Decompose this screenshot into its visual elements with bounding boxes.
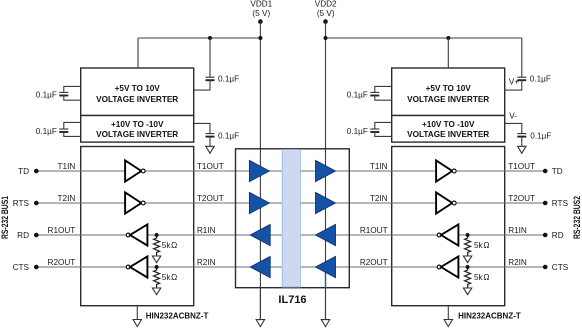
buffer T2 (left chip) <box>125 192 145 213</box>
svg-text:HIN232ACBNZ-T: HIN232ACBNZ-T <box>458 311 521 320</box>
capacitor C1 0.1uF (left outer top) <box>36 86 81 100</box>
voltage inverter box U2a +5V TO 10V <box>81 68 194 116</box>
ground under U3 <box>444 306 452 327</box>
svg-text:(5 V): (5 V) <box>317 9 335 18</box>
svg-text:R1IN: R1IN <box>508 226 527 235</box>
isolator U1 IL716 box <box>236 149 350 288</box>
svg-text:+5V TO 10V: +5V TO 10V <box>426 84 472 93</box>
svg-text:V+: V+ <box>509 77 519 86</box>
wire VDD2 vertical <box>325 22 327 320</box>
ground under U1 right <box>321 288 329 327</box>
svg-text:T2OUT: T2OUT <box>508 194 535 203</box>
voltage inverter box U3b +10V TO -10V <box>392 116 505 143</box>
junction U3 top tap dot <box>446 36 450 40</box>
svg-text:RD: RD <box>552 231 564 240</box>
wire row2 RTS to T2 buffer <box>36 202 125 204</box>
receiver R1 (left chip) <box>126 224 147 245</box>
terminal dot CTS left <box>34 265 39 270</box>
capacitor C7 0.1uF (right V+ cap) <box>505 38 551 90</box>
svg-text:T1IN: T1IN <box>370 162 388 171</box>
resistor 5k right R1 pulldown <box>463 233 489 263</box>
channel triangle U1 left row4 <box>250 256 270 277</box>
receiver R1 (right chip) <box>437 224 458 245</box>
wire VDD1 vertical <box>259 22 261 320</box>
wire drop into U3 top <box>447 38 449 68</box>
svg-text:VOLTAGE INVERTER: VOLTAGE INVERTER <box>96 130 178 139</box>
transceiver U2 HIN232ACBNZ-T box (left) <box>81 147 194 306</box>
channel triangle U1 right row1 <box>316 160 336 181</box>
voltage inverter box U3a +5V TO 10V <box>392 68 505 116</box>
wire row4 right R2 input to CTS <box>458 266 545 268</box>
isolation barrier bar <box>282 150 300 288</box>
ground under C8 <box>518 146 526 153</box>
svg-text:VOLTAGE INVERTER: VOLTAGE INVERTER <box>407 95 489 104</box>
terminal dot RD left <box>34 233 39 238</box>
svg-text:CTS: CTS <box>552 263 569 272</box>
wire row3 RD to R1 buffer bubble <box>36 234 126 236</box>
svg-text:R1IN: R1IN <box>197 226 216 235</box>
junction VDD1 rail dot <box>258 36 262 40</box>
ground under U1 left <box>256 288 264 327</box>
svg-text:+5V TO 10V: +5V TO 10V <box>115 84 161 93</box>
svg-text:0.1µF: 0.1µF <box>36 127 57 136</box>
terminal dot RTS right <box>543 201 548 206</box>
capacitor C2 0.1uF (left outer bottom) <box>36 122 81 136</box>
svg-text:V-: V- <box>509 112 517 121</box>
svg-text:T2IN: T2IN <box>58 194 76 203</box>
wire right VDD2 rail <box>326 37 522 39</box>
wire left VDD1 rail <box>138 37 260 39</box>
svg-text:0.1µF: 0.1µF <box>218 132 239 141</box>
svg-text:5k Ω: 5k Ω <box>162 241 177 250</box>
svg-text:RTS: RTS <box>13 199 30 208</box>
svg-text:0.1µF: 0.1µF <box>347 90 368 99</box>
buffer T1 (left chip) <box>125 160 145 181</box>
svg-text:0.1µF: 0.1µF <box>218 75 239 84</box>
wire row1 right buffer out to TD <box>456 170 545 172</box>
node VDD2 label <box>315 0 337 18</box>
svg-text:0.1µF: 0.1µF <box>530 132 551 141</box>
svg-text:T1IN: T1IN <box>58 162 76 171</box>
buffer T2 (right chip) <box>436 192 456 213</box>
svg-text:T1OUT: T1OUT <box>508 162 535 171</box>
svg-text:CTS: CTS <box>13 263 30 272</box>
wire row1 T1OUT across to right buffer <box>145 170 436 172</box>
svg-text:(5 V): (5 V) <box>252 9 270 18</box>
svg-text:VDD2: VDD2 <box>315 0 337 8</box>
wire row4 R2 input across to right bubble <box>147 266 437 268</box>
svg-text:R1OUT: R1OUT <box>48 226 76 235</box>
svg-text:TD: TD <box>18 167 29 176</box>
svg-text:VOLTAGE INVERTER: VOLTAGE INVERTER <box>96 95 178 104</box>
terminal dot RD right <box>543 233 548 238</box>
svg-text:+10V TO -10V: +10V TO -10V <box>422 120 475 129</box>
receiver R2 (right chip) <box>437 256 458 277</box>
svg-text:0.1µF: 0.1µF <box>347 127 368 136</box>
svg-text:HIN232ACBNZ-T: HIN232ACBNZ-T <box>146 311 209 320</box>
resistor 5k left R1 pulldown <box>152 233 177 263</box>
svg-text:5k Ω: 5k Ω <box>162 273 177 282</box>
wire drop into U2 top <box>137 38 139 68</box>
svg-text:0.1µF: 0.1µF <box>530 75 551 84</box>
svg-text:TD: TD <box>552 167 563 176</box>
svg-text:R2IN: R2IN <box>508 258 527 267</box>
svg-text:R2IN: R2IN <box>197 258 216 267</box>
svg-text:T1OUT: T1OUT <box>197 162 224 171</box>
svg-text:RS-232 BUS1: RS-232 BUS1 <box>0 196 10 239</box>
channel triangle U1 left row2 <box>249 192 269 213</box>
voltage inverter box U2b +10V TO -10V <box>81 116 194 143</box>
node VDD2 terminal dot <box>323 19 328 24</box>
svg-text:RTS: RTS <box>552 199 569 208</box>
terminal dot RTS left <box>34 201 39 206</box>
wire blue segment below right row4 channel <box>325 267 327 288</box>
svg-text:R2OUT: R2OUT <box>360 258 388 267</box>
terminal dot TD right <box>543 169 548 174</box>
wire row1 TD to T1 buffer <box>36 170 125 172</box>
ground under U2 <box>133 306 141 327</box>
svg-text:VOLTAGE INVERTER: VOLTAGE INVERTER <box>407 130 489 139</box>
capacitor C8 0.1uF (right V- cap) <box>505 123 552 146</box>
svg-text:IL716: IL716 <box>278 294 306 306</box>
svg-text:VDD1: VDD1 <box>250 0 272 8</box>
svg-text:5k Ω: 5k Ω <box>474 241 489 250</box>
terminal dot TD left <box>34 169 39 174</box>
svg-text:0.1µF: 0.1µF <box>36 90 57 99</box>
resistor 5k left R2 pulldown <box>152 265 177 295</box>
node VDD1 label <box>250 0 272 18</box>
channel triangle U1 right row3 <box>316 224 336 245</box>
node VDD1 terminal dot <box>258 19 263 24</box>
wire row4 CTS to R2 buffer bubble <box>36 266 126 268</box>
transceiver U3 HIN232ACBNZ-T box (right) <box>392 147 505 306</box>
buffer T1 (right chip) <box>436 160 456 181</box>
channel triangle U1 right row4 <box>316 256 336 277</box>
junction C2 tap dot <box>208 36 212 40</box>
svg-text:R1OUT: R1OUT <box>360 226 388 235</box>
capacitor C3 0.1uF (left inner top, from rail to V+ pin) <box>194 38 239 90</box>
receiver R2 (left chip) <box>126 256 147 277</box>
capacitor C4 0.1uF (left inner bottom, V- to ground) <box>194 123 239 146</box>
channel triangle U1 left row1 <box>249 160 269 181</box>
svg-text:RS-232 BUS2: RS-232 BUS2 <box>572 196 582 239</box>
svg-text:5k Ω: 5k Ω <box>474 273 489 282</box>
channel triangle U1 left row3 <box>250 224 270 245</box>
junction VDD2 rail dot <box>324 36 328 40</box>
resistor 5k right R2 pulldown <box>463 265 489 295</box>
wire row2 T2OUT across to right buffer <box>145 202 436 204</box>
capacitor C6 0.1uF (right outer bottom) <box>347 122 392 136</box>
ground under C4 <box>206 146 214 153</box>
svg-text:R2OUT: R2OUT <box>48 258 76 267</box>
terminal dot CTS right <box>543 265 548 270</box>
svg-text:RD: RD <box>17 231 29 240</box>
wire row3 R1 input across to right bubble <box>147 234 437 236</box>
wire row3 right R1 input to RD <box>458 234 545 236</box>
svg-text:T2OUT: T2OUT <box>197 194 224 203</box>
channel triangle U1 right row2 <box>316 192 336 213</box>
capacitor C5 0.1uF (right outer top) <box>347 86 392 100</box>
svg-text:T2IN: T2IN <box>370 194 388 203</box>
wire row2 right buffer out to RTS <box>456 202 545 204</box>
svg-text:+10V TO -10V: +10V TO -10V <box>111 120 164 129</box>
